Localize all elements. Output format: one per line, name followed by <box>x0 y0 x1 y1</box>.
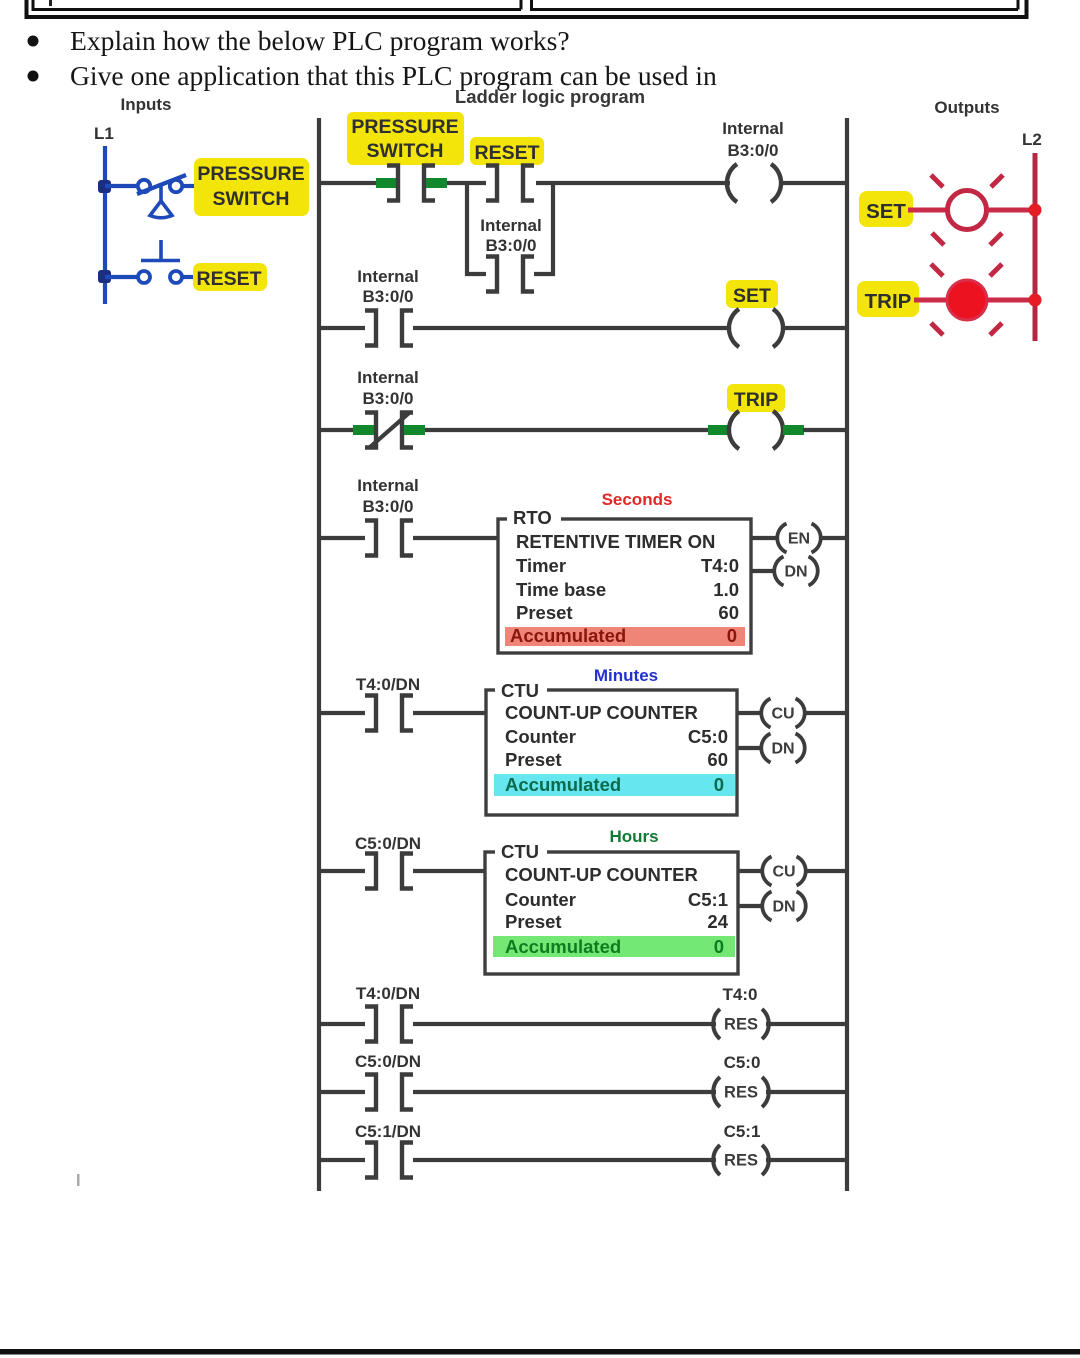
wire box to CU <box>737 711 763 715</box>
energized segment <box>783 425 804 435</box>
rung 3 wire to rail <box>803 428 847 432</box>
coil CU (hours) <box>762 857 805 886</box>
svg-text:Timer: Timer <box>516 555 566 576</box>
coil DN (minutes) <box>761 734 804 763</box>
RESET label (rung 1) <box>470 137 544 165</box>
svg-text:Internal: Internal <box>357 267 418 286</box>
SET label <box>859 191 913 227</box>
lamp TRIP rays <box>931 264 1002 335</box>
rung 2 wire left <box>319 326 365 330</box>
TRIP label <box>727 384 785 412</box>
wire L1 to reset button <box>105 275 139 279</box>
svg-text:RESET: RESET <box>196 268 261 290</box>
wire SET label to lamp <box>908 208 948 213</box>
wire TRIP label to lamp <box>914 298 948 303</box>
svg-text:Counter: Counter <box>505 889 576 910</box>
energized segment <box>376 178 397 188</box>
svg-text:Time base: Time base <box>516 579 606 600</box>
svg-text:COUNT-UP COUNTER: COUNT-UP COUNTER <box>505 864 698 885</box>
svg-text:DN: DN <box>771 741 794 758</box>
rung 5 wire left <box>319 711 365 715</box>
rung 1 wire middle <box>447 181 486 185</box>
svg-text:B3:0/0: B3:0/0 <box>362 389 413 408</box>
bottom rule <box>0 1349 1080 1355</box>
coil CU (minutes) <box>761 699 804 728</box>
svg-text:B3:0/0: B3:0/0 <box>362 497 413 516</box>
wire EN to rail <box>819 536 847 540</box>
contact XIO internal B3:0/0 (NC) <box>365 413 413 448</box>
L1 rail <box>103 146 107 304</box>
svg-text:L2: L2 <box>1022 130 1042 149</box>
svg-text:Accumulated: Accumulated <box>505 774 621 795</box>
energized segment <box>404 425 425 435</box>
reset pushbutton PB1 <box>138 240 182 283</box>
left power rail <box>317 118 321 1191</box>
node junction 2 <box>98 270 111 283</box>
rung 5 wire to counter box <box>413 711 487 715</box>
contact XIC T4:0/DN <box>365 1007 413 1042</box>
coil DN (hours) <box>762 892 805 921</box>
svg-text:CTU: CTU <box>501 680 539 701</box>
wire box to EN <box>751 536 779 540</box>
stray tick mark <box>77 1174 80 1186</box>
svg-text:1.0: 1.0 <box>713 579 739 600</box>
svg-text:C5:1: C5:1 <box>688 889 728 910</box>
counter CTU C5:1 box <box>485 841 738 974</box>
rung 1 wire left <box>319 181 378 185</box>
rung 8 wire left <box>319 1090 365 1094</box>
rung 7 wire middle <box>413 1022 716 1026</box>
wire box to DN (hours) <box>738 904 764 908</box>
wire L1 to pressure switch <box>105 184 138 188</box>
rung 1 wire right of reset <box>536 181 730 185</box>
rung 6 wire to counter box <box>413 869 487 873</box>
svg-text:C5:1/DN: C5:1/DN <box>355 1122 421 1141</box>
bullet 2 <box>28 71 39 82</box>
svg-text:Explain how the below PLC prog: Explain how the below PLC program works? <box>70 25 570 56</box>
rung 8 wire to rail <box>766 1090 847 1094</box>
svg-text:RETENTIVE TIMER ON: RETENTIVE TIMER ON <box>516 531 715 552</box>
svg-text:Inputs: Inputs <box>121 95 172 114</box>
coil RES C5:0 <box>713 1077 769 1107</box>
junction dot TRIP <box>1029 294 1042 307</box>
svg-text:DN: DN <box>784 564 807 581</box>
svg-text:C5:1: C5:1 <box>724 1122 761 1141</box>
coil EN <box>777 524 820 553</box>
svg-text:Seconds: Seconds <box>602 490 673 509</box>
rung 2 wire middle <box>413 326 730 330</box>
svg-text:Internal: Internal <box>722 119 783 138</box>
rung 6 wire left <box>319 869 365 873</box>
contact XIC C5:1/DN <box>365 1143 413 1178</box>
rung 2 wire to rail <box>783 326 847 330</box>
svg-text:C5:0: C5:0 <box>724 1053 761 1072</box>
svg-text:T4:0/DN: T4:0/DN <box>356 984 420 1003</box>
svg-text:RESET: RESET <box>474 142 539 164</box>
wire CU to rail (hours) <box>804 869 847 873</box>
contact XIC C5:0/DN (rung 6) <box>365 854 413 889</box>
contact XIC pressure switch <box>387 166 435 201</box>
svg-text:Internal: Internal <box>357 368 418 387</box>
svg-text:CU: CU <box>772 864 795 881</box>
svg-text:Minutes: Minutes <box>594 666 658 685</box>
wire CU to rail <box>803 711 847 715</box>
svg-text:B3:0/0: B3:0/0 <box>362 287 413 306</box>
svg-text:T4:0: T4:0 <box>701 555 739 576</box>
rung 3 wire left <box>319 428 355 432</box>
wire box to DN <box>751 569 776 573</box>
rung 4 wire left <box>319 536 365 540</box>
L2 rail <box>1033 153 1038 341</box>
wire reset button to label <box>182 275 197 279</box>
counter CTU C5:0 box <box>486 680 737 815</box>
svg-text:TRIP: TRIP <box>734 389 778 411</box>
contact XIC internal (rung 2) <box>365 311 413 346</box>
svg-text:CU: CU <box>771 706 794 723</box>
svg-text:C5:0/DN: C5:0/DN <box>355 1052 421 1071</box>
svg-text:SET: SET <box>866 200 906 223</box>
svg-text:B3:0/0: B3:0/0 <box>485 236 536 255</box>
svg-text:PRESSURE: PRESSURE <box>197 163 304 185</box>
NC slash <box>369 413 409 448</box>
svg-text:Outputs: Outputs <box>934 98 999 117</box>
svg-text:T4:0/DN: T4:0/DN <box>356 675 420 694</box>
coil RES T4:0 <box>713 1009 769 1039</box>
svg-text:60: 60 <box>707 749 728 770</box>
lamp SET rays <box>931 175 1003 245</box>
coil OTE SET <box>729 309 783 347</box>
node junction 1 <box>98 180 111 193</box>
svg-text:Preset: Preset <box>505 749 562 770</box>
svg-text:Accumulated: Accumulated <box>510 625 626 646</box>
contact XIC T4:0/DN (rung 5) <box>365 696 413 731</box>
pressure switch PS1 <box>137 175 186 218</box>
rung 8 wire middle <box>413 1090 716 1094</box>
energized segment <box>353 425 374 435</box>
svg-text:SWITCH: SWITCH <box>367 140 444 162</box>
svg-text:PRESSURE: PRESSURE <box>351 116 458 138</box>
svg-text:Preset: Preset <box>505 911 562 932</box>
rung 1 wire to rail <box>781 181 847 185</box>
TRIP label <box>857 281 919 317</box>
svg-text:Accumulated: Accumulated <box>505 936 621 957</box>
coil OTE TRIP <box>729 411 783 449</box>
rung 9 wire middle <box>413 1158 716 1162</box>
right power rail <box>845 118 849 1191</box>
svg-text:CTU: CTU <box>501 841 539 862</box>
energized segment <box>426 178 447 188</box>
bullet 1 <box>28 36 39 47</box>
lamp TRIP <box>947 280 987 320</box>
svg-text:Hours: Hours <box>609 827 658 846</box>
svg-text:L1: L1 <box>94 124 114 143</box>
junction dot SET <box>1029 204 1042 217</box>
rung 3 wire middle <box>425 428 712 432</box>
svg-text:RTO: RTO <box>513 507 552 528</box>
rung 9 wire left <box>319 1158 365 1162</box>
svg-text:Internal: Internal <box>480 216 541 235</box>
svg-text:B3:0/0: B3:0/0 <box>727 141 778 160</box>
rung 9 wire to rail <box>766 1158 847 1162</box>
contact XIC internal (rung 4) <box>365 521 413 556</box>
wire box to DN (minutes) <box>737 746 763 750</box>
coil RES C5:1 <box>713 1145 769 1175</box>
rung 7 wire left <box>319 1022 365 1026</box>
contact XIC reset <box>486 166 534 201</box>
svg-text:COUNT-UP COUNTER: COUNT-UP COUNTER <box>505 702 698 723</box>
svg-text:EN: EN <box>788 531 810 548</box>
wire box to CU (hours) <box>738 869 764 873</box>
svg-text:DN: DN <box>772 899 795 916</box>
RESET label <box>193 263 267 291</box>
svg-text:TRIP: TRIP <box>865 290 912 313</box>
wire SET lamp to L2 <box>986 208 1035 213</box>
letter fragment p <box>49 0 52 6</box>
svg-text:Internal: Internal <box>357 476 418 495</box>
svg-text:Preset: Preset <box>516 602 573 623</box>
svg-text:24: 24 <box>707 911 728 932</box>
parallel branch wires <box>467 181 553 274</box>
PRESSURE SWITCH label <box>194 158 309 216</box>
svg-text:Counter: Counter <box>505 726 576 747</box>
svg-text:0: 0 <box>714 936 724 957</box>
SET label <box>726 280 778 308</box>
coil DN (timer) <box>774 557 817 586</box>
svg-text:0: 0 <box>714 774 724 795</box>
svg-text:60: 60 <box>718 602 739 623</box>
svg-text:T4:0: T4:0 <box>723 985 758 1004</box>
lamp SET <box>948 191 987 230</box>
rung 7 wire to rail <box>766 1022 847 1026</box>
svg-text:SET: SET <box>733 285 771 307</box>
svg-text:Ladder logic program: Ladder logic program <box>455 86 645 107</box>
PRESSURE SWITCH label (rung 1) <box>347 112 464 165</box>
svg-text:C5:0: C5:0 <box>688 726 728 747</box>
svg-text:C5:0/DN: C5:0/DN <box>355 834 421 853</box>
rung 4 wire to timer box <box>413 536 499 540</box>
contact XIC internal B3:0/0 branch <box>486 257 534 292</box>
energized segment <box>708 425 729 435</box>
svg-text:SWITCH: SWITCH <box>213 188 290 210</box>
svg-text:0: 0 <box>727 625 737 646</box>
outer table frame (cut at top) <box>25 0 1029 17</box>
timer RTO T4:0 box <box>498 507 751 653</box>
coil OTE internal B3:0/0 <box>727 164 781 202</box>
contact XIC C5:0/DN <box>365 1075 413 1110</box>
wire TRIP lamp to L2 <box>987 298 1035 303</box>
wire pressure switch to label <box>182 184 198 188</box>
